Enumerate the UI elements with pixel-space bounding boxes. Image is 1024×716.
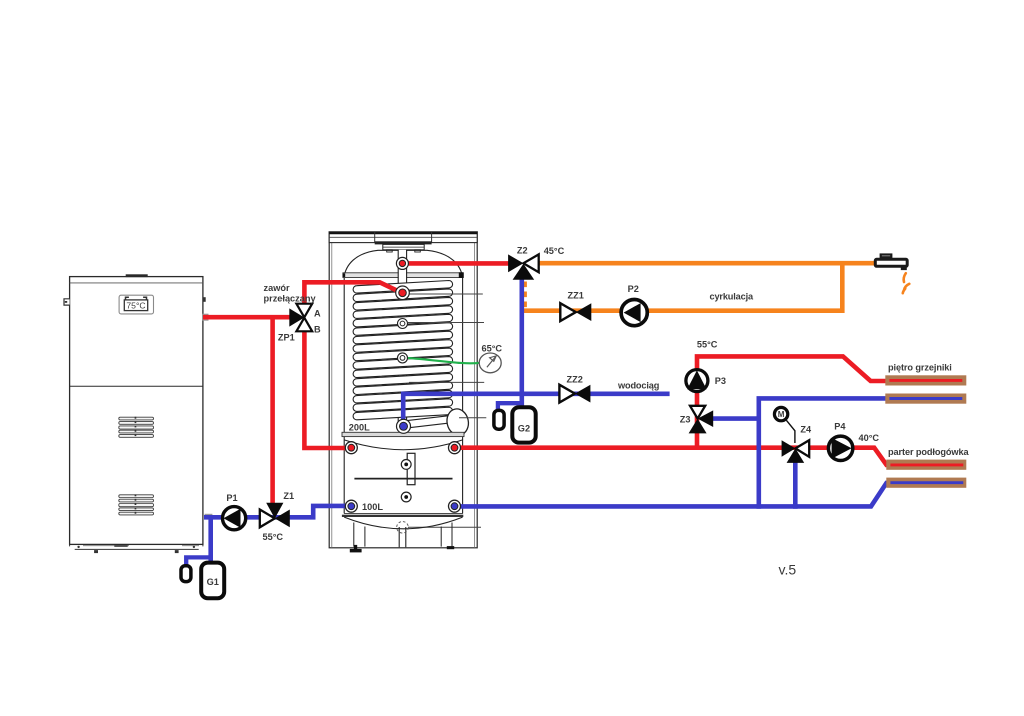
radiator bar parter supply xyxy=(886,460,966,470)
valve ZZ1 xyxy=(560,290,591,321)
pump P4 xyxy=(828,421,852,460)
svg-text:M: M xyxy=(778,410,785,419)
svg-text:ZP1: ZP1 xyxy=(278,333,295,343)
svg-text:55°C: 55°C xyxy=(263,532,284,542)
wire red: 55C feed riser through P3 and Z3 with elbow to radiator xyxy=(697,356,887,448)
svg-text:100L: 100L xyxy=(362,502,383,512)
100L flange plate xyxy=(407,453,415,484)
svg-text:ZZ1: ZZ1 xyxy=(568,290,584,300)
small vessel near G2 xyxy=(494,410,504,429)
radiator bar pietro return xyxy=(885,394,966,404)
svg-text:piętro grzejniki: piętro grzejniki xyxy=(888,363,952,373)
sensor leader lines xyxy=(408,294,486,527)
tank top port xyxy=(396,257,408,269)
wire red: tank 100L right port to Z4, P4 and radiator parter xyxy=(452,448,890,465)
svg-text:P4: P4 xyxy=(834,421,846,431)
tank bottom dish and legs xyxy=(344,517,462,547)
wire blue: tank 100L left port to Z1, P1 and boiler return xyxy=(204,506,346,517)
valve Z2 (45C) xyxy=(508,245,564,279)
tank 100L right blue port xyxy=(449,500,461,512)
wire red: ZP1 port A up and to tank upper port xyxy=(304,282,402,306)
tank top band xyxy=(329,232,477,245)
motor M xyxy=(774,407,795,443)
wire red: ZP1 port B down to tank 100L left port xyxy=(304,329,352,448)
svg-text:Z3: Z3 xyxy=(680,414,691,424)
boiler vent grille xyxy=(119,494,154,515)
wire red: boiler supply to ZP1 xyxy=(203,315,291,320)
wire red: tee down to valve Z1 xyxy=(270,317,275,506)
wire blue: Z4 bottom stub xyxy=(793,455,798,509)
valve Z4 with actuator M xyxy=(782,424,812,463)
tank bottom band xyxy=(344,512,463,514)
svg-text:Z1: Z1 xyxy=(283,491,294,501)
boiler display 75C xyxy=(119,295,153,314)
wire blue: cold water wodociag line through ZZ2 xyxy=(403,394,669,426)
collar flange xyxy=(343,273,464,278)
faucet (tap) xyxy=(875,253,907,270)
wire blue: tank 100L right port to floor return xyxy=(452,483,890,507)
boiler top cap xyxy=(126,274,148,277)
valve ZP1 zawor przelaczany xyxy=(278,304,321,343)
valve Z1 (55C) xyxy=(260,491,294,542)
svg-text:65°C: 65°C xyxy=(482,343,503,353)
radiator bar pietro supply xyxy=(885,375,966,385)
wire orange: Z2 to faucet (45C) xyxy=(537,261,876,266)
separator band 200L/100L xyxy=(342,432,464,436)
100L vessel xyxy=(344,437,462,514)
svg-text:parter podłogówka: parter podłogówka xyxy=(888,447,969,457)
tank top cap xyxy=(383,244,424,252)
pump P2 xyxy=(621,284,647,326)
boiler pipe stubs (gray) xyxy=(203,314,209,321)
tank drain dashed circle xyxy=(397,522,409,534)
valve ZZ2 xyxy=(559,375,590,403)
svg-text:wodociąg: wodociąg xyxy=(617,381,659,391)
tank 100L left blue port xyxy=(345,500,357,512)
inner vessel side walls xyxy=(344,278,462,433)
faucet water drops xyxy=(903,273,910,293)
tank 100L left red port xyxy=(345,442,357,454)
wire blue: radiator return and right riser xyxy=(759,398,890,508)
svg-text:P2: P2 xyxy=(628,284,639,294)
svg-text:A: A xyxy=(314,308,321,318)
boiler (kociol) body xyxy=(70,277,203,545)
svg-text:55°C: 55°C xyxy=(697,339,718,349)
svg-text:przełączany: przełączany xyxy=(264,294,317,304)
svg-text:45°C: 45°C xyxy=(544,246,565,256)
svg-text:200L: 200L xyxy=(349,422,370,432)
tank center pipe xyxy=(398,250,406,424)
heat exchanger coil xyxy=(353,281,453,429)
radiator bar parter return xyxy=(886,478,966,488)
boiler left tab xyxy=(64,299,70,305)
tank sensor port 65C xyxy=(398,353,408,363)
svg-text:Z2: Z2 xyxy=(517,245,528,255)
svg-text:Z4: Z4 xyxy=(800,424,812,434)
boiler right tab xyxy=(203,297,206,302)
tank sensor port upper xyxy=(398,319,408,329)
pump P1 xyxy=(223,493,246,530)
svg-text:40°C: 40°C xyxy=(859,433,880,443)
boiler base and feet xyxy=(70,544,203,553)
wire blue: G2 small vessel elbow xyxy=(498,403,522,410)
expansion vessel G1 xyxy=(201,563,224,599)
tank coil outlet port (blue) xyxy=(397,419,411,433)
wire blue: Z3 return branch xyxy=(704,416,759,421)
svg-text:v.5: v.5 xyxy=(779,562,797,578)
pump P3 xyxy=(686,370,726,392)
buffer tank jacket xyxy=(329,232,477,548)
100L middle circles and line xyxy=(354,460,452,502)
wire blue: branch down to vessel G1 xyxy=(208,517,213,563)
tank foot pads xyxy=(354,545,357,550)
small vessel near G1 xyxy=(181,566,191,582)
wire green: sensor line to 65C gauge xyxy=(406,358,480,363)
svg-text:G1: G1 xyxy=(207,577,219,587)
wire red: tank top port to valve Z2 xyxy=(404,261,510,266)
wire blue: G1 small vessel elbow xyxy=(186,557,211,566)
tank coil inlet port xyxy=(396,286,410,300)
thermometer gauge 65C xyxy=(479,343,502,372)
tank side port ellipse xyxy=(445,407,471,437)
svg-text:P1: P1 xyxy=(226,493,237,503)
boiler vent grille xyxy=(119,417,154,438)
expansion vessel G2 xyxy=(512,407,535,442)
valve Z3 xyxy=(680,406,713,434)
svg-text:G2: G2 xyxy=(518,423,530,433)
wire orange: cyrkulacja loop through ZZ1 and P2 xyxy=(523,263,842,311)
wire orange: dashed drop below Z2 xyxy=(523,282,527,309)
svg-text:B: B xyxy=(314,324,321,334)
svg-text:P3: P3 xyxy=(715,376,726,386)
tank 100L right red port xyxy=(449,442,461,454)
svg-text:zawór: zawór xyxy=(264,283,290,293)
svg-text:ZZ2: ZZ2 xyxy=(567,375,583,385)
svg-text:75°C: 75°C xyxy=(126,301,145,311)
svg-text:cyrkulacja: cyrkulacja xyxy=(710,292,754,302)
wire blue: Z2 drop to wodociag line and G2 xyxy=(519,279,524,408)
inner vessel dome xyxy=(344,250,463,277)
